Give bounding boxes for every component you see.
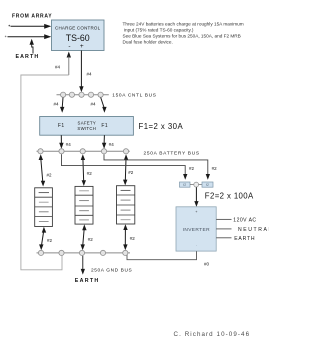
svg-text:INVERTER: INVERTER: [183, 227, 211, 233]
fuse F2 junction: [190, 182, 202, 187]
svg-text:Dual fuse holder device.: Dual fuse holder device.: [123, 40, 173, 45]
svg-text:f2: f2: [206, 183, 209, 187]
svg-text:+: +: [80, 43, 84, 50]
fuse F2 right holder: [202, 182, 213, 187]
svg-text:FROM ARRAY: FROM ARRAY: [12, 14, 52, 20]
charge controller U1 TS-60: [52, 20, 105, 51]
safety switch S1: [40, 117, 134, 136]
inverter U2: [176, 207, 216, 251]
svg-text:#4: #4: [55, 65, 61, 70]
wire array positive input: [9, 24, 52, 29]
svg-text:input (75% rated TS-60 capacit: input (75% rated TS-60 capacity.): [124, 28, 194, 33]
svg-text:#0: #0: [204, 262, 210, 267]
wire charge controller plus to cntl bus: [79, 51, 83, 93]
wire battery B1 to gnd bus: [39, 227, 46, 250]
svg-text:SAFETY: SAFETY: [78, 121, 97, 126]
inverter AC output stubs: [216, 219, 231, 237]
wire gnd bus to earth: [81, 256, 85, 275]
wire switch to battery bus left: [59, 135, 63, 149]
wire array negative input: [5, 34, 52, 39]
wire charge controller minus return: [21, 52, 71, 270]
bus 150A CNTL BUS: [57, 92, 109, 97]
svg-text:#2: #2: [128, 170, 134, 175]
svg-text:See Blue Sea Systems for bus 2: See Blue Sea Systems for bus 250A, 150A,…: [123, 34, 241, 39]
battery B3: [117, 186, 135, 224]
svg-text:f2: f2: [183, 183, 186, 187]
svg-text:#2: #2: [47, 238, 53, 243]
wire inverter to gnd bus: [127, 251, 197, 260]
svg-text:F1: F1: [101, 123, 108, 129]
wire cntl bus to switch left: [60, 98, 64, 113]
svg-text:EARTH: EARTH: [75, 278, 100, 284]
svg-text:NEUTRAL: NEUTRAL: [238, 227, 269, 233]
svg-text:CHARGE CONTROL: CHARGE CONTROL: [55, 26, 101, 31]
battery B2: [75, 186, 93, 224]
svg-text:#4: #4: [66, 142, 72, 147]
wire switch to battery bus right: [102, 135, 106, 149]
svg-text:TS-60: TS-60: [66, 33, 90, 43]
svg-text:-: -: [68, 43, 70, 50]
wire cntl bus to switch right: [101, 98, 107, 113]
bus 250A GND BUS: [37, 250, 131, 255]
svg-text:250A BATTERY BUS: 250A BATTERY BUS: [144, 151, 200, 157]
svg-text:120V AC: 120V AC: [233, 218, 256, 224]
wire battery B2 to gnd bus: [81, 224, 87, 250]
svg-text:#2: #2: [130, 236, 136, 241]
svg-text:F1=2 x 30A: F1=2 x 30A: [139, 122, 184, 131]
svg-text:#4: #4: [87, 72, 93, 77]
svg-text:150A CNTL BUS: 150A CNTL BUS: [112, 92, 156, 98]
wire battery bus to fuse F2 left (lower feed): [62, 154, 188, 180]
note text block: [123, 22, 244, 45]
svg-text:C. Richard 10-09-46: C. Richard 10-09-46: [174, 331, 251, 338]
wire battery B3 to gnd bus: [123, 224, 128, 250]
wire battery bus to battery B2: [81, 154, 86, 186]
svg-text:EARTH: EARTH: [16, 54, 40, 60]
svg-text:F2=2 x 100A: F2=2 x 100A: [205, 192, 254, 201]
svg-text:#4: #4: [91, 102, 97, 107]
battery B1: [35, 188, 53, 227]
earth arrow (top): [30, 39, 34, 54]
svg-text:SWITCH: SWITCH: [77, 126, 96, 131]
svg-text:#4: #4: [109, 142, 115, 147]
svg-text:#4: #4: [54, 102, 60, 107]
wire battery bus to battery B1: [39, 154, 46, 186]
svg-text:#2: #2: [47, 173, 53, 178]
svg-text:F1: F1: [58, 123, 65, 129]
wire battery bus to fuse F2 right (upper feed): [104, 154, 210, 180]
fuse F2 left holder: [180, 182, 191, 187]
wire battery bus to battery B3: [123, 154, 128, 185]
svg-text:Three 24V batteries each charg: Three 24V batteries each charge at rough…: [123, 22, 244, 27]
wire fuse junction to inverter: [194, 187, 198, 207]
svg-text:#2: #2: [88, 237, 94, 242]
svg-text:#2: #2: [212, 166, 218, 171]
svg-text:250A GND BUS: 250A GND BUS: [91, 268, 132, 274]
svg-text:#2: #2: [189, 166, 195, 171]
svg-text:EARTH: EARTH: [234, 236, 255, 242]
bus 250A BATTERY BUS: [37, 149, 130, 154]
svg-text:#2: #2: [87, 171, 93, 176]
